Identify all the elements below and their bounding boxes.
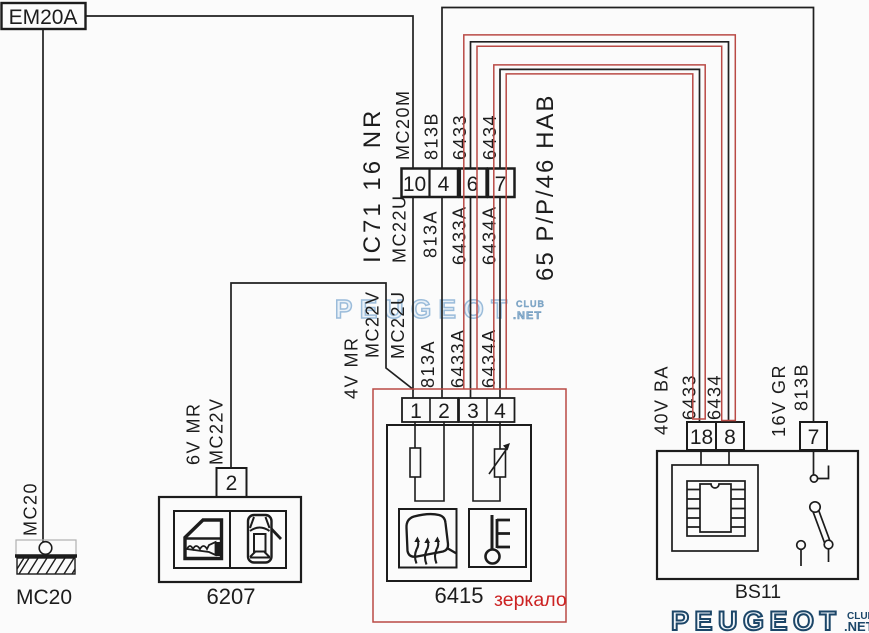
svg-text:1: 1 [410, 400, 422, 423]
svg-text:813A: 813A [421, 210, 441, 258]
svg-text:6433A: 6433A [450, 205, 470, 265]
svg-text:7: 7 [495, 173, 507, 196]
svg-text:4: 4 [494, 400, 506, 423]
svg-text:16V GR: 16V GR [769, 364, 789, 437]
svg-text:MC20M: MC20M [393, 89, 413, 160]
svg-text:6433: 6433 [450, 114, 470, 160]
svg-text:PEUGEOT: PEUGEOT [671, 606, 842, 633]
svg-text:7: 7 [808, 426, 820, 449]
svg-text:18: 18 [690, 426, 713, 449]
svg-text:MC20: MC20 [21, 482, 41, 536]
svg-text:6433A: 6433A [448, 328, 468, 388]
svg-text:6433: 6433 [680, 374, 700, 420]
svg-text:IC71 16 NR: IC71 16 NR [359, 108, 386, 263]
svg-text:813A: 813A [418, 340, 438, 388]
svg-text:BS11: BS11 [735, 581, 781, 603]
svg-text:6434: 6434 [480, 114, 500, 160]
svg-text:CLUB: CLUB [516, 299, 545, 309]
svg-text:.NET: .NET [844, 619, 869, 633]
svg-text:10: 10 [403, 173, 426, 196]
svg-text:65 P/P/46 HAB: 65 P/P/46 HAB [532, 94, 559, 281]
svg-text:6207: 6207 [207, 584, 256, 609]
svg-text:зеркало: зеркало [494, 589, 567, 611]
svg-text:MC22V: MC22V [207, 397, 227, 465]
svg-text:MC20: MC20 [16, 586, 72, 609]
svg-text:6434A: 6434A [479, 328, 499, 388]
svg-text:6415: 6415 [435, 583, 484, 608]
svg-text:813B: 813B [792, 363, 812, 411]
svg-text:2: 2 [438, 400, 450, 423]
svg-text:3: 3 [467, 400, 479, 423]
svg-text:4: 4 [438, 173, 450, 196]
svg-text:6434A: 6434A [480, 205, 500, 265]
svg-text:MC22U: MC22U [390, 194, 410, 263]
svg-text:2: 2 [226, 472, 238, 495]
svg-text:.NET: .NET [513, 310, 542, 322]
svg-text:6V MR: 6V MR [184, 402, 204, 465]
svg-text:8: 8 [724, 426, 736, 449]
svg-text:EM20A: EM20A [9, 6, 78, 29]
svg-text:MC22U: MC22U [388, 290, 408, 359]
svg-text:4V MR: 4V MR [342, 336, 362, 399]
svg-text:MC22V: MC22V [363, 290, 383, 358]
svg-text:813B: 813B [422, 112, 442, 160]
svg-text:40V BA: 40V BA [652, 365, 672, 435]
